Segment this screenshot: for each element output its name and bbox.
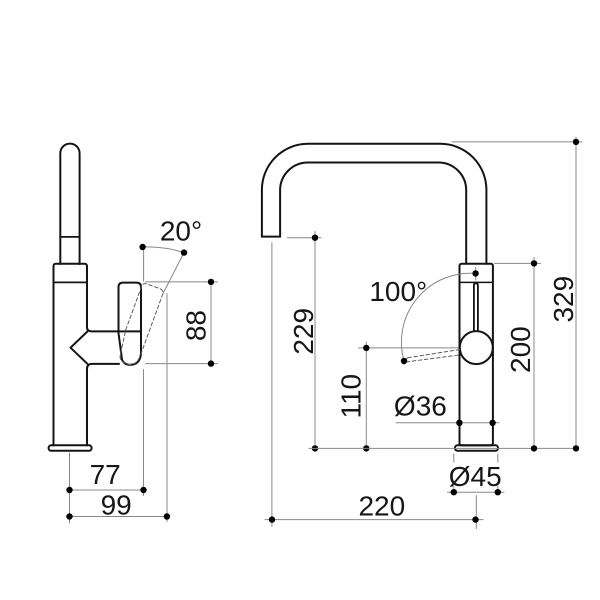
baseline — [309, 447, 578, 449]
handle tilted 20 deg (dashed) — [115, 283, 164, 368]
77 extension right — [143, 370, 145, 496]
svg-text:229: 229 — [288, 308, 319, 355]
svg-text:77: 77 — [90, 459, 121, 490]
svg-text:99: 99 — [101, 489, 132, 520]
dashed lever down position — [408, 350, 460, 358]
svg-text:88: 88 — [181, 310, 212, 341]
body outline with arm — [54, 264, 142, 446]
88 dimension — [146, 281, 218, 283]
body right — [460, 264, 493, 446]
lever slot front view — [474, 283, 478, 331]
svg-text:220: 220 — [358, 491, 405, 522]
spout outlet level line — [60, 236, 79, 238]
svg-text:Ø36: Ø36 — [394, 390, 447, 421]
collar joint line right — [460, 281, 493, 283]
tick at arc top — [475, 268, 477, 281]
20 deg extension vertical — [143, 250, 145, 281]
lever ball — [460, 331, 493, 364]
base flange left — [49, 445, 92, 451]
handle side view — [119, 283, 142, 365]
O45 dimension — [453, 454, 455, 492]
collar joint line left — [54, 281, 88, 283]
spout outer — [262, 144, 487, 264]
O36 dimension — [396, 422, 499, 424]
20 deg dimension arc — [143, 247, 184, 253]
chevron notch — [71, 332, 88, 364]
99 dimension line — [70, 516, 167, 518]
329 dimension — [452, 141, 582, 143]
left centerline — [69, 453, 71, 523]
200 dimension — [495, 262, 541, 264]
229 dimension — [288, 237, 322, 239]
svg-text:20°: 20° — [160, 216, 202, 247]
dot 20 arc left — [139, 244, 145, 250]
99 extension right — [166, 294, 168, 522]
220 dimension — [271, 243, 273, 527]
20 deg slanted extension — [163, 253, 184, 294]
77 dimension line — [70, 489, 144, 491]
100 deg arc — [401, 273, 475, 361]
svg-text:329: 329 — [548, 276, 579, 323]
spout inner — [280, 163, 466, 264]
svg-text:100°: 100° — [369, 276, 427, 307]
arm bottom edge — [87, 364, 119, 446]
svg-text:Ø45: Ø45 — [449, 461, 502, 492]
base flange right — [455, 445, 498, 451]
svg-text:200: 200 — [505, 326, 536, 373]
spout outlet end — [262, 236, 280, 238]
spout side view stick — [60, 144, 79, 264]
dot 20 arc right — [181, 249, 187, 255]
dashed lever tip cap — [406, 358, 408, 362]
svg-text:110: 110 — [335, 374, 366, 419]
110 dimension — [359, 347, 459, 349]
